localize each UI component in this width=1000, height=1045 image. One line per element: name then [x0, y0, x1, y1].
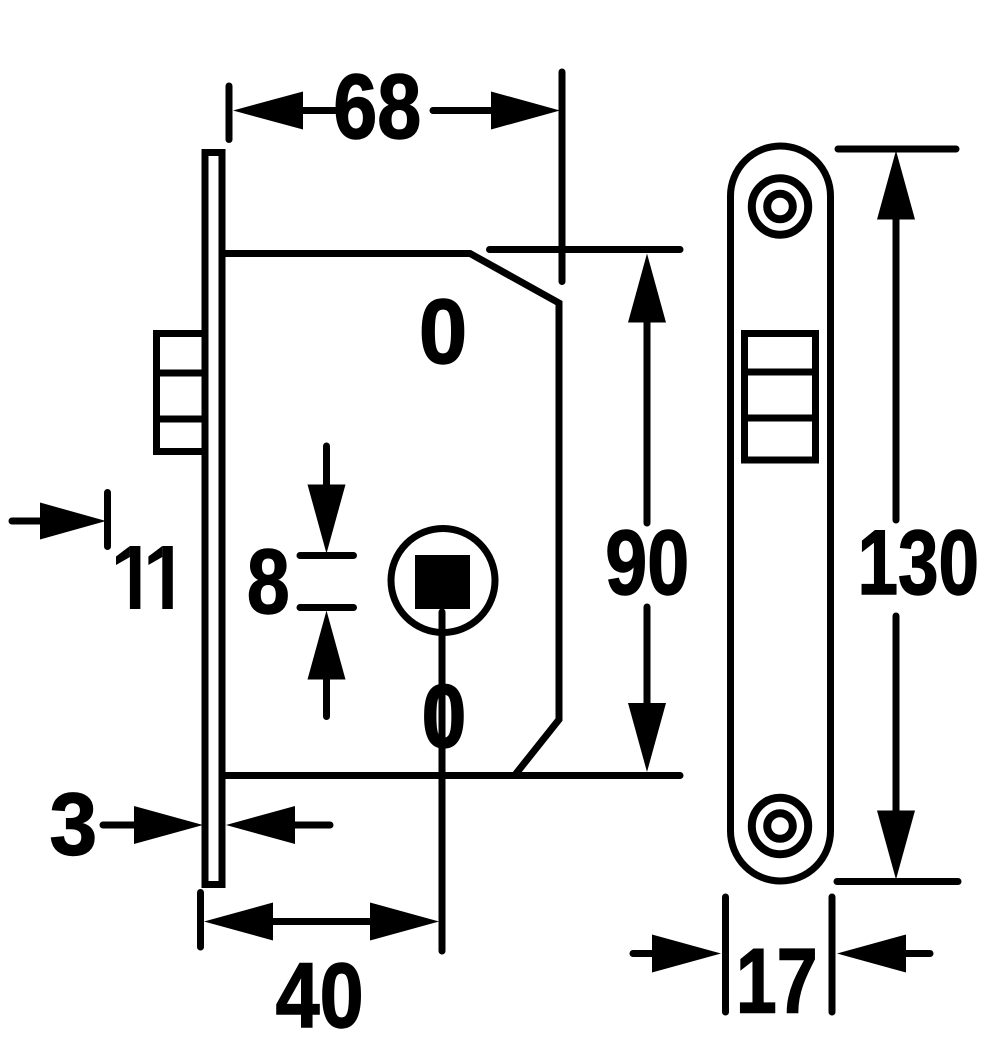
svg-text:40: 40	[276, 945, 364, 1045]
svg-text:68: 68	[333, 55, 421, 158]
svg-text:130: 130	[858, 511, 980, 614]
svg-text:0: 0	[419, 280, 467, 383]
svg-text:90: 90	[605, 511, 689, 614]
svg-text:17: 17	[736, 929, 818, 1032]
svg-text:3: 3	[49, 775, 97, 873]
svg-text:0: 0	[422, 667, 467, 767]
svg-text:8: 8	[247, 529, 290, 632]
